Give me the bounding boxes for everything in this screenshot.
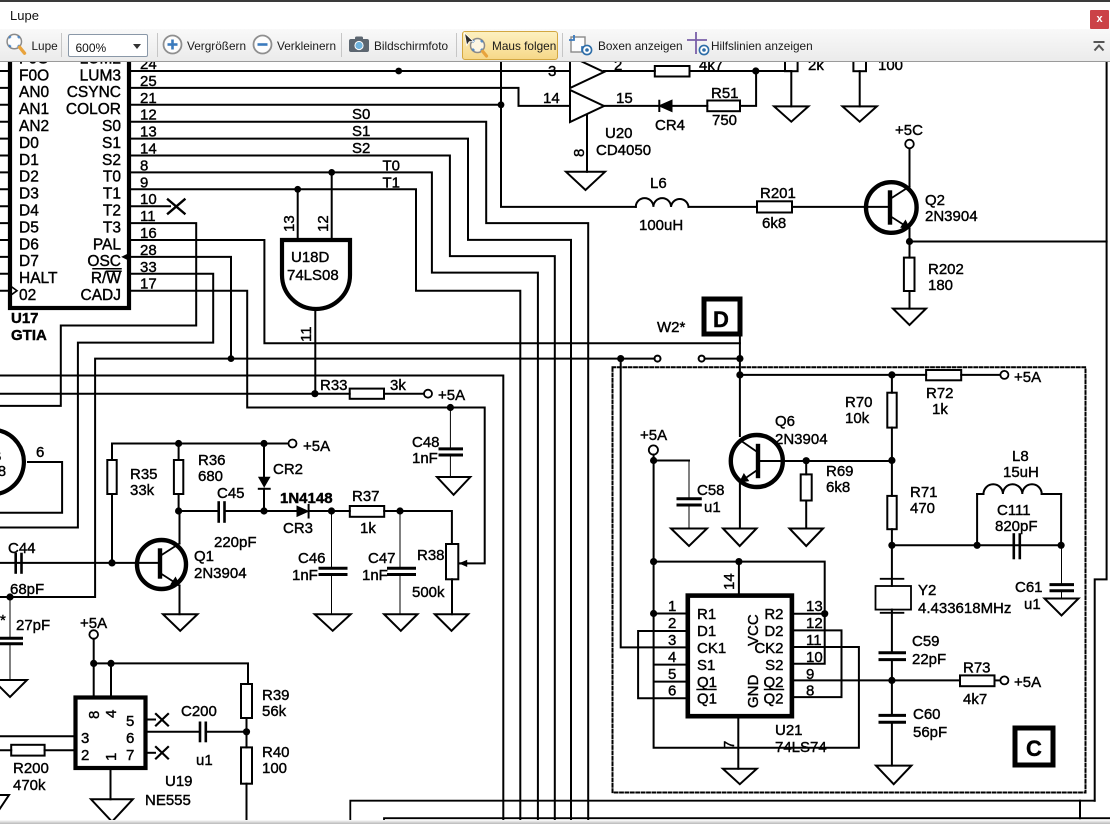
AND gate U18B (clipped at left edge)	[0, 430, 24, 494]
wire pin10 T2 stub	[129, 205, 170, 207]
svg-text:6: 6	[36, 444, 44, 461]
svg-text:+5A: +5A	[1014, 674, 1041, 691]
junction dot R35 bottom	[108, 559, 115, 566]
U19 ref labels	[145, 703, 217, 809]
svg-text:470k: 470k	[13, 777, 46, 794]
svg-text:4.433618MHz: 4.433618MHz	[918, 600, 1011, 617]
Q2 labels	[925, 192, 978, 225]
svg-text:14: 14	[543, 90, 560, 107]
svg-text:R37: R37	[352, 488, 380, 505]
svg-text:U20: U20	[605, 125, 633, 142]
junction dots +5A rail	[90, 660, 97, 667]
wire U19 pin3 to left edge	[0, 735, 76, 737]
ground under U19	[91, 799, 133, 821]
svg-text:100uH: 100uH	[639, 217, 683, 234]
wire right edge vertical	[1095, 62, 1107, 801]
junction dot CR2 top	[260, 440, 267, 447]
junction dot pin1	[650, 610, 657, 617]
svg-text:U19: U19	[165, 773, 193, 790]
ground under C61	[1045, 599, 1079, 616]
ground under C46	[315, 614, 351, 631]
svg-text:9: 9	[806, 666, 814, 683]
no-connect X on U19 pin5	[156, 714, 168, 726]
svg-text:+5A: +5A	[640, 427, 667, 444]
svg-text:100: 100	[878, 62, 903, 74]
svg-text:R200: R200	[13, 760, 49, 777]
svg-text:Q1: Q1	[194, 548, 214, 565]
L8 labels	[1003, 448, 1039, 481]
svg-text:820pF: 820pF	[995, 518, 1038, 535]
wire U21 pin1 to +5A vertical	[654, 613, 688, 615]
svg-text:C46: C46	[298, 550, 326, 567]
svg-text:W2*: W2*	[657, 319, 686, 336]
resistor R69	[801, 461, 812, 529]
svg-text:1: 1	[103, 753, 120, 761]
svg-text:4: 4	[103, 710, 120, 718]
IC U17 GTIA box	[10, 40, 129, 308]
svg-text:3: 3	[668, 632, 676, 649]
svg-text:CK1: CK1	[697, 640, 726, 657]
capacitor 27pF	[0, 597, 22, 680]
IC U21 74LS74 box	[688, 596, 792, 717]
R38 labels	[412, 547, 445, 601]
ground under Q1	[163, 614, 198, 631]
svg-text:R2: R2	[764, 606, 783, 623]
svg-text:L8: L8	[1012, 448, 1029, 465]
toolbar icon: Lupe	[6, 33, 28, 57]
capacitor C47	[389, 511, 415, 614]
wire pin25 CSYNC to U20 buffer input 14	[129, 88, 570, 106]
wire U21 pin9 to R73	[792, 679, 960, 681]
svg-text:NE555: NE555	[145, 792, 191, 809]
C60 labels	[913, 706, 947, 741]
svg-text:2: 2	[614, 62, 622, 74]
ground under C47	[384, 614, 417, 631]
svg-text:R40: R40	[262, 744, 290, 761]
svg-text:D2: D2	[764, 623, 783, 640]
svg-text:7: 7	[126, 747, 134, 764]
U21 right pin labels	[754, 606, 783, 708]
transistor Q6 2N3904	[731, 435, 783, 487]
svg-text:220pF: 220pF	[214, 534, 257, 551]
C111 labels	[995, 502, 1038, 535]
svg-text:22pF: 22pF	[912, 651, 946, 668]
U17 ref labels	[11, 310, 47, 344]
toolbar icon: minus	[252, 34, 273, 55]
svg-text:GND: GND	[745, 675, 762, 709]
junction dot C200/R39/R40	[243, 728, 250, 735]
wire CR3 to R37	[309, 510, 350, 512]
ground under Q6	[723, 529, 757, 547]
svg-text:R72: R72	[926, 385, 954, 402]
Q6 labels	[775, 413, 828, 448]
Q1 labels	[194, 548, 247, 582]
svg-text:CD4050: CD4050	[596, 142, 651, 159]
svg-text:27pF: 27pF	[16, 617, 50, 634]
U17 pin numbers	[140, 56, 157, 293]
svg-text:10k: 10k	[845, 410, 870, 427]
svg-text:U17: U17	[11, 310, 39, 327]
capacitor C61	[1051, 545, 1073, 598]
svg-text:HALT: HALT	[19, 270, 58, 287]
capacitor C58	[678, 461, 700, 529]
jumper W2 open terminals	[655, 356, 661, 362]
svg-text:AN0: AN0	[19, 84, 50, 101]
U21 ref labels	[775, 722, 827, 756]
svg-text:+5A: +5A	[80, 615, 107, 632]
resistor R37	[350, 506, 384, 517]
wire U21 pin7 GND	[737, 716, 739, 769]
capacitor C60	[880, 715, 905, 765]
junction dot R69 top	[803, 457, 810, 464]
resistor R35	[107, 444, 116, 563]
svg-text:470: 470	[910, 500, 935, 517]
svg-text:R35: R35	[130, 466, 158, 483]
svg-text:3: 3	[81, 730, 89, 747]
svg-text:8: 8	[86, 711, 103, 719]
inductor L8	[977, 484, 1061, 545]
wire S0 staircase	[129, 122, 588, 824]
svg-text:68pF: 68pF	[10, 581, 44, 598]
svg-text:6: 6	[126, 730, 134, 747]
junction dot Q6 base / R70	[888, 457, 895, 464]
svg-text:15uH: 15uH	[1003, 464, 1039, 481]
wire Q1 collector up to C45 net	[179, 511, 181, 544]
bottom bus wire upper	[350, 801, 1094, 824]
svg-text:13: 13	[281, 215, 298, 232]
svg-text:Q1: Q1	[697, 691, 717, 708]
C58 labels	[697, 482, 725, 516]
wire OSC horizontal left branch with caps	[0, 359, 658, 597]
wire R33 to +5A	[384, 393, 424, 395]
U17 OSC underline and R/W overline	[93, 269, 121, 272]
U21 pin numbers right	[806, 598, 823, 700]
dashed PAL circuit box	[613, 367, 1086, 792]
U21 pin numbers left	[668, 598, 676, 700]
junction dot R70 top	[888, 371, 895, 378]
svg-text:CR3: CR3	[283, 520, 313, 537]
wire U21 pin2-pin6 bracket	[638, 631, 688, 698]
C44 labels	[8, 540, 44, 598]
wire R50 to 2k resistor	[690, 70, 792, 72]
svg-text:74LS74: 74LS74	[775, 739, 827, 756]
svg-text:D1: D1	[19, 152, 39, 169]
wire OSC into PAL box to CK1	[621, 359, 688, 648]
svg-text:1nF: 1nF	[362, 567, 388, 584]
svg-text:F0O: F0O	[19, 68, 49, 85]
ground under R38	[435, 614, 468, 631]
wire L6 to R201	[689, 206, 758, 208]
terminal +5A (NE555)	[89, 630, 98, 639]
svg-text:AN2: AN2	[19, 118, 49, 135]
U17 pin O2 clock wedge	[10, 286, 17, 296]
U20 pin 8 ground wire	[586, 115, 588, 172]
svg-text:Q2: Q2	[763, 691, 783, 708]
svg-text:R201: R201	[760, 185, 796, 202]
wire T0 staircase	[129, 172, 538, 824]
svg-text:56k: 56k	[262, 703, 287, 720]
junction dot R36/Q1 collector	[175, 507, 182, 514]
potentiometer R38	[446, 544, 467, 614]
svg-text:Y2: Y2	[918, 582, 936, 599]
svg-text:8: 8	[571, 149, 588, 157]
svg-text:D6: D6	[19, 236, 39, 253]
svg-text:COLOR: COLOR	[66, 101, 121, 118]
capacitor C48	[440, 408, 462, 478]
svg-text:T0: T0	[103, 169, 121, 186]
wire pin21 COLOR to vertical	[129, 104, 501, 106]
svg-text:11: 11	[298, 326, 315, 342]
U20 pin labels	[543, 57, 633, 107]
+5A rail over R35/R36	[112, 443, 289, 445]
terminal +5A (R33)	[424, 390, 432, 398]
svg-text:PAL: PAL	[93, 236, 122, 253]
U19 pin numbers	[81, 710, 134, 764]
wire C45 net R36 bottom to CR3	[179, 510, 218, 512]
svg-text:GTIA: GTIA	[11, 327, 47, 344]
diode CR3 1N4148	[297, 505, 309, 518]
wire U20 output 2 to R50	[604, 70, 655, 72]
C48 labels	[412, 434, 440, 467]
resistor R201	[757, 201, 792, 212]
svg-text:R33: R33	[320, 377, 348, 394]
svg-text:u1: u1	[704, 499, 721, 516]
partial ground at bottom left edge	[0, 795, 9, 810]
U17 pin OSC input wedge	[122, 254, 129, 261]
svg-text:CSYNC: CSYNC	[67, 84, 121, 101]
svg-text:Q2: Q2	[763, 674, 783, 691]
svg-text:*: *	[0, 612, 6, 629]
wire CR4 to R51	[672, 105, 708, 107]
wire COLOR vertical down to L6	[501, 62, 636, 207]
svg-text:2: 2	[668, 615, 676, 632]
svg-text:Q6: Q6	[775, 413, 795, 430]
U21 Q1bar/Q2bar underlines	[697, 689, 784, 691]
svg-text:D7: D7	[19, 253, 39, 270]
wire R37 to R38 top	[384, 511, 452, 544]
toolbar chevron	[1093, 41, 1105, 52]
toolbar icon: camera	[348, 35, 370, 54]
U19 pin7 stub	[146, 752, 156, 754]
svg-text:S0: S0	[352, 106, 370, 123]
U18D output pin 11 wire	[314, 309, 316, 394]
svg-text:180: 180	[928, 277, 953, 294]
capacitor C44	[16, 554, 22, 573]
R70 labels	[845, 394, 873, 427]
wire R73 to +5A	[995, 679, 1001, 681]
terminal +5A (R36 rail)	[289, 440, 297, 448]
svg-text:R70: R70	[845, 394, 873, 411]
svg-text:1N4148: 1N4148	[280, 490, 333, 507]
svg-text:5: 5	[668, 666, 676, 683]
svg-text:6: 6	[668, 683, 676, 700]
svg-text:D4: D4	[19, 203, 39, 220]
junction dot C48	[447, 404, 454, 411]
junction dot R73/C59	[888, 677, 895, 684]
U18D input pin 13 wire	[297, 189, 299, 240]
wire U21 pin12-pin8 bracket	[792, 630, 842, 697]
svg-text:LS08: LS08	[0, 463, 6, 480]
wire R72 to +5A	[961, 374, 1000, 376]
svg-text:C58: C58	[697, 482, 725, 499]
toolbar icon: plus	[162, 34, 183, 55]
wire pin4 drop	[110, 663, 112, 697]
svg-text:1k: 1k	[932, 401, 948, 418]
svg-text:2k: 2k	[808, 62, 824, 74]
svg-text:C45: C45	[217, 485, 245, 502]
svg-text:D3: D3	[19, 186, 39, 203]
svg-text:74LS08: 74LS08	[287, 267, 339, 284]
buffer U20B triangle	[570, 90, 604, 122]
R69 labels	[826, 463, 854, 496]
junction dot +5A/C58	[650, 457, 657, 464]
wire Q6 emitter to ground	[739, 482, 741, 529]
R71 labels	[910, 484, 938, 517]
svg-text:+5A: +5A	[438, 387, 465, 404]
svg-text:D: D	[713, 307, 729, 332]
wire U18B pin6 loop	[0, 462, 62, 513]
wire R51 up to output2 net	[740, 71, 756, 106]
svg-text:15: 15	[616, 90, 633, 107]
diode CR2	[259, 444, 270, 512]
wire D box down through PAL circuit to Q6	[739, 334, 741, 436]
wire 2k to ground	[790, 71, 792, 106]
svg-text:D0: D0	[19, 135, 39, 152]
transistor Q1 2N3904	[137, 540, 186, 589]
bottom bus wire lower	[384, 818, 1110, 824]
R39 labels	[262, 687, 290, 720]
junction dot R33/pin11	[311, 390, 318, 397]
ground under U20	[566, 172, 605, 190]
svg-text:u1: u1	[1024, 596, 1041, 613]
ground under C58	[671, 529, 707, 547]
R51 labels	[711, 85, 739, 129]
svg-text:3: 3	[548, 63, 556, 80]
resistor R202	[904, 258, 915, 291]
svg-text:3k: 3k	[390, 377, 406, 394]
wire U21 pin4 stub	[654, 664, 688, 666]
wire C58 branch	[654, 460, 689, 462]
resistor R40	[241, 732, 252, 824]
U20 ref labels	[596, 125, 651, 159]
svg-text:R/W: R/W	[91, 270, 122, 287]
ground under 100	[843, 106, 877, 121]
ground under U21	[723, 769, 757, 785]
wire R201 to Q2 base	[792, 206, 889, 208]
U21 left pin labels	[697, 606, 726, 708]
wire Q6 base to R70 bottom	[758, 460, 892, 462]
toolbar icon: boxen anzeigen	[569, 35, 595, 57]
resistor R70	[887, 375, 896, 461]
C46 labels	[292, 550, 326, 584]
svg-text:7: 7	[721, 741, 738, 749]
wire PAL pin16 to D-box vertical	[129, 240, 740, 343]
wire Q2 emitter down to R202	[909, 229, 911, 258]
svg-text:680: 680	[198, 468, 223, 485]
wire U20 output 15 to CR4	[604, 105, 659, 107]
section marker C box	[1015, 728, 1053, 765]
svg-text:+5A: +5A	[1014, 369, 1041, 386]
wire U21 pin5 stub	[654, 681, 688, 683]
wire R/W pin33 staircase to left edge	[0, 274, 213, 528]
toolbar icon: maus folgen	[463, 32, 489, 58]
svg-text:T2: T2	[103, 203, 121, 220]
svg-text:C111: C111	[997, 502, 1031, 519]
svg-text:R69: R69	[826, 463, 854, 480]
svg-text:R51: R51	[711, 85, 739, 102]
svg-text:2N3904: 2N3904	[775, 431, 828, 448]
junction dot CR2 bottom	[260, 507, 267, 514]
svg-text:6k8: 6k8	[826, 479, 850, 496]
svg-text:C200: C200	[181, 703, 217, 720]
svg-text:14: 14	[721, 573, 738, 590]
Y2 labels	[918, 582, 1011, 617]
svg-text:R1: R1	[697, 606, 716, 623]
svg-text:02: 02	[19, 287, 36, 304]
inductor L6	[636, 198, 689, 207]
svg-text:1k: 1k	[360, 520, 376, 537]
svg-text:R39: R39	[262, 687, 290, 704]
resistor R200	[11, 745, 44, 756]
svg-text:T1: T1	[103, 186, 121, 203]
svg-text:500k: 500k	[412, 584, 445, 601]
ground under 2k	[774, 106, 808, 121]
R36 labels	[198, 452, 226, 485]
ground under R69	[790, 529, 824, 547]
wire C45 to CR3	[225, 510, 298, 512]
signal name labels on bus wires	[352, 106, 400, 191]
svg-text:OSC: OSC	[87, 253, 121, 270]
terminal +5A (C58)	[649, 445, 658, 454]
AND gate U18D 74LS08	[282, 240, 350, 309]
resistor R50	[655, 66, 690, 77]
svg-text:R38: R38	[417, 547, 445, 564]
wire R33 net from left edge	[0, 393, 350, 395]
C45 labels	[214, 485, 257, 551]
wire R202 to ground	[909, 291, 911, 309]
C61 labels	[1015, 579, 1043, 613]
svg-text:C61: C61	[1015, 579, 1043, 596]
wire U19 pin2 through R200 to left edge	[0, 749, 76, 751]
svg-text:C48: C48	[412, 434, 440, 451]
svg-text:1nF: 1nF	[292, 567, 318, 584]
svg-text:R73: R73	[963, 660, 991, 677]
junction dot 27pF	[6, 593, 13, 600]
junction dots VCC rail	[650, 558, 657, 565]
wire +5A down to U19 pin8	[93, 639, 95, 698]
wire unnamed net left edge down to bottom	[0, 376, 503, 825]
R72 labels	[926, 385, 954, 418]
wire S2 staircase	[129, 156, 555, 825]
R35 labels	[130, 466, 158, 499]
section marker D box	[704, 299, 740, 334]
wire 100 to ground	[859, 71, 861, 106]
CR3 labels	[280, 490, 333, 537]
27pF labels	[0, 612, 50, 634]
wire Q2 collector to +5C	[909, 149, 911, 187]
wire PAL box top rail to R70/R72	[740, 374, 926, 376]
wire CADJ pin17 to R38 wiper	[129, 291, 485, 564]
svg-text:2N3904: 2N3904	[194, 565, 247, 582]
R38 wiper arrowhead	[459, 560, 467, 567]
svg-text:12: 12	[315, 215, 332, 232]
U18D labels	[287, 249, 339, 284]
wire C200 to R39/R40 junction	[206, 731, 247, 733]
svg-text:C59: C59	[912, 633, 940, 650]
capacitor C111	[1014, 535, 1020, 559]
bottom right short vertical	[1079, 801, 1081, 819]
wire S1 staircase	[129, 139, 571, 824]
